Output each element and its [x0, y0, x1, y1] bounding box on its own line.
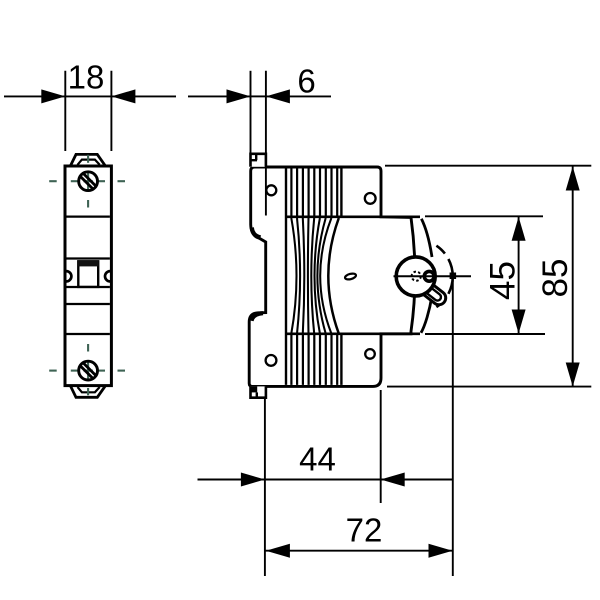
dimension 6: dim line	[251, 95, 266, 97]
front block edge top band	[340, 169, 342, 216]
small marking oval on housing	[344, 273, 356, 281]
toggle lever (side view, outer)	[418, 279, 449, 307]
body hole upper	[365, 193, 376, 204]
plate hole lower	[266, 355, 277, 366]
toggle swing dash-dot arc	[436, 246, 445, 254]
dimension 85: top arrow	[566, 167, 580, 191]
dimension 6: right extension line	[265, 71, 267, 154]
knob horizontal center line	[394, 275, 472, 277]
lower clip dark curl	[252, 313, 264, 321]
toggle surround upper beak	[421, 219, 432, 257]
front view internal horizontal line (toggle recess bottom)	[67, 286, 110, 288]
toggle knob circle	[396, 257, 435, 296]
dimension 18: tail line left	[4, 95, 65, 97]
top terminal screw (front view)	[79, 172, 98, 191]
dimension 6: extension line continuation into part	[265, 154, 267, 216]
right recess notch (half circle)	[105, 271, 110, 281]
dimension 18: right tail	[111, 95, 176, 97]
body hole lower	[365, 349, 375, 359]
side view main body silhouette (incl. front face and DIN plate profile)	[249, 167, 415, 386]
dimension 44: right arrow	[381, 473, 405, 487]
DIN clip top tab	[251, 154, 266, 167]
dimension 18: dim line	[65, 95, 111, 97]
bottom screw slot lines	[83, 363, 96, 376]
dimension 6: right tail	[266, 95, 331, 97]
middle band top boundary line	[286, 215, 420, 218]
knob center small dashed circle	[412, 272, 421, 281]
curved housing contour arcs (middle band)	[291, 218, 296, 334]
front view internal horizontal line (toggle recess top)	[67, 257, 110, 259]
dimension 44: left tail	[198, 479, 265, 481]
dimension 45: top extension line	[425, 215, 543, 217]
toggle lever (side view, inner)	[423, 285, 442, 302]
dimension 6: left extension line	[250, 71, 252, 154]
large housing contour arc	[328, 218, 339, 334]
ribs top band	[290, 169, 292, 216]
svg-text:45: 45	[484, 261, 523, 300]
dimension 44: right extension line	[380, 390, 382, 503]
toggle lever (front view)	[78, 261, 98, 287]
horizontal center line through top screw (green dash)	[49, 180, 57, 182]
dimension 18: left extension line	[64, 71, 66, 151]
dimension 85: dim line	[572, 166, 574, 387]
dimension 85: bottom arrow	[566, 363, 580, 387]
front view top cap (inner line)	[78, 160, 100, 165]
dimension 72: left arrow	[266, 544, 290, 558]
dimension 85: top extension line	[385, 165, 591, 167]
dimension 44: dim line	[265, 479, 381, 481]
svg-text:18: 18	[68, 59, 105, 96]
dimension 45: dim line	[518, 216, 520, 334]
node dot on center line	[450, 273, 457, 280]
dimension 18: left arrow	[41, 89, 65, 103]
top screw slot lines	[83, 173, 96, 186]
ribs bottom band	[290, 335, 292, 385]
body left vertical line (rib area edge)	[285, 169, 287, 385]
front view internal horizontal line (45mm lower plane)	[67, 333, 110, 335]
svg-text:72: 72	[346, 512, 383, 549]
bottom tab hook line	[256, 392, 258, 397]
front view internal horizontal line (below recess)	[67, 303, 110, 305]
upper rail hook dark curl	[252, 228, 261, 238]
dimension 72: dim line	[266, 550, 453, 552]
front view internal horizontal line (45mm upper plane)	[67, 216, 110, 218]
vertical center line of front view (green dash)	[87, 155, 89, 163]
svg-text:85: 85	[536, 259, 575, 298]
knob small thick circle	[424, 271, 434, 281]
dimension 72: right extension line (from toggle center)	[452, 279, 454, 576]
dimension 6: left tail line	[188, 95, 251, 97]
toggle lever dark top band	[78, 261, 99, 267]
left recess notch (half circle)	[66, 271, 71, 281]
dimension 85: bottom extension line	[387, 386, 591, 388]
bottom tab of plate	[251, 386, 266, 397]
horizontal center line through bottom screw (green dash)	[49, 370, 57, 372]
dimension 6: right arrow	[266, 89, 290, 103]
dimension 44: right tail	[381, 479, 453, 481]
front view bottom cap (outer)	[71, 386, 106, 397]
shared left extension line (44/72)	[264, 398, 266, 576]
bottom tab hook black fill	[251, 386, 258, 392]
front block edge bottom band	[340, 335, 342, 385]
front view bottom cap (inner line)	[78, 387, 100, 392]
dimension 45: top arrow	[512, 217, 526, 241]
bottom terminal screw (front view)	[79, 361, 98, 380]
plate hole upper	[266, 185, 276, 195]
dimension 45: bottom arrow	[512, 310, 526, 334]
svg-text:6: 6	[297, 63, 315, 100]
toggle surround lower beak	[421, 296, 432, 333]
middle band bottom boundary line	[286, 332, 420, 335]
dimension 18: right arrow	[111, 89, 135, 103]
front view body outline	[65, 166, 111, 386]
dimension 72: right arrow	[429, 544, 453, 558]
dimension 44: left arrow	[241, 473, 265, 487]
svg-text:44: 44	[299, 441, 336, 478]
front view top cap (outer)	[71, 154, 106, 165]
dimension 45: bottom extension line	[425, 333, 545, 335]
dimension 18: right extension line	[110, 71, 112, 151]
dimension 6: left arrow	[227, 89, 251, 103]
top tab hook lines	[251, 159, 258, 161]
